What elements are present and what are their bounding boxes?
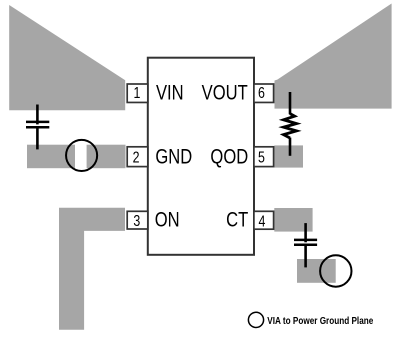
capacitor C2 bottom lead: [304, 244, 307, 267]
via V1 clearance stripe: [75, 140, 87, 171]
capacitor C1 top lead: [36, 105, 39, 125]
svg-text:3: 3: [133, 213, 140, 231]
CT pad (pin 4): [274, 208, 312, 232]
pin 4 box: [254, 211, 274, 229]
capacitor C1 bottom plate: [26, 126, 49, 129]
svg-text:VOUT: VOUT: [202, 82, 248, 105]
IC U1 body: [148, 58, 254, 255]
capacitor C2 top lead: [304, 223, 307, 242]
GND copper trace (left strip to pin 2): [27, 145, 126, 169]
pin 2 box: [127, 147, 148, 167]
pin 1 box: [127, 84, 148, 102]
resistor R1 zigzag body: [284, 114, 297, 138]
resistor R1 top lead: [289, 92, 292, 114]
svg-text:5: 5: [258, 149, 265, 167]
svg-text:4: 4: [259, 213, 266, 231]
svg-text:VIA to Power Ground Plane: VIA to Power Ground Plane: [267, 316, 373, 327]
svg-text:2: 2: [133, 149, 140, 167]
svg-text:QOD: QOD: [210, 146, 248, 169]
via V2 (to power ground plane): [320, 255, 351, 286]
pin 3 box: [127, 211, 148, 229]
svg-text:6: 6: [258, 85, 265, 103]
pin 5 box: [254, 147, 274, 167]
VIN copper plane (top-left polygon): [9, 5, 125, 110]
QOD pad (pin 5): [274, 145, 303, 167]
svg-text:ON: ON: [155, 209, 180, 232]
ground pad (bottom right): [297, 259, 336, 283]
VOUT copper plane (top-right polygon): [275, 4, 392, 109]
svg-text:VIN: VIN: [156, 82, 184, 105]
svg-text:1: 1: [134, 84, 141, 102]
resistor R1 bottom lead: [289, 138, 292, 156]
svg-text:CT: CT: [226, 209, 248, 232]
capacitor C2 bottom plate: [294, 244, 317, 247]
legend via symbol: [248, 312, 263, 327]
capacitor C1 top plate: [26, 121, 49, 124]
capacitor C1 bottom lead: [36, 127, 39, 150]
capacitor C2 top plate: [294, 239, 317, 242]
via V1 (to power ground plane): [66, 140, 97, 171]
svg-text:GND: GND: [155, 146, 192, 169]
pin 6 box: [254, 84, 274, 102]
ON copper trace (L-shape, pin 3): [59, 208, 125, 330]
